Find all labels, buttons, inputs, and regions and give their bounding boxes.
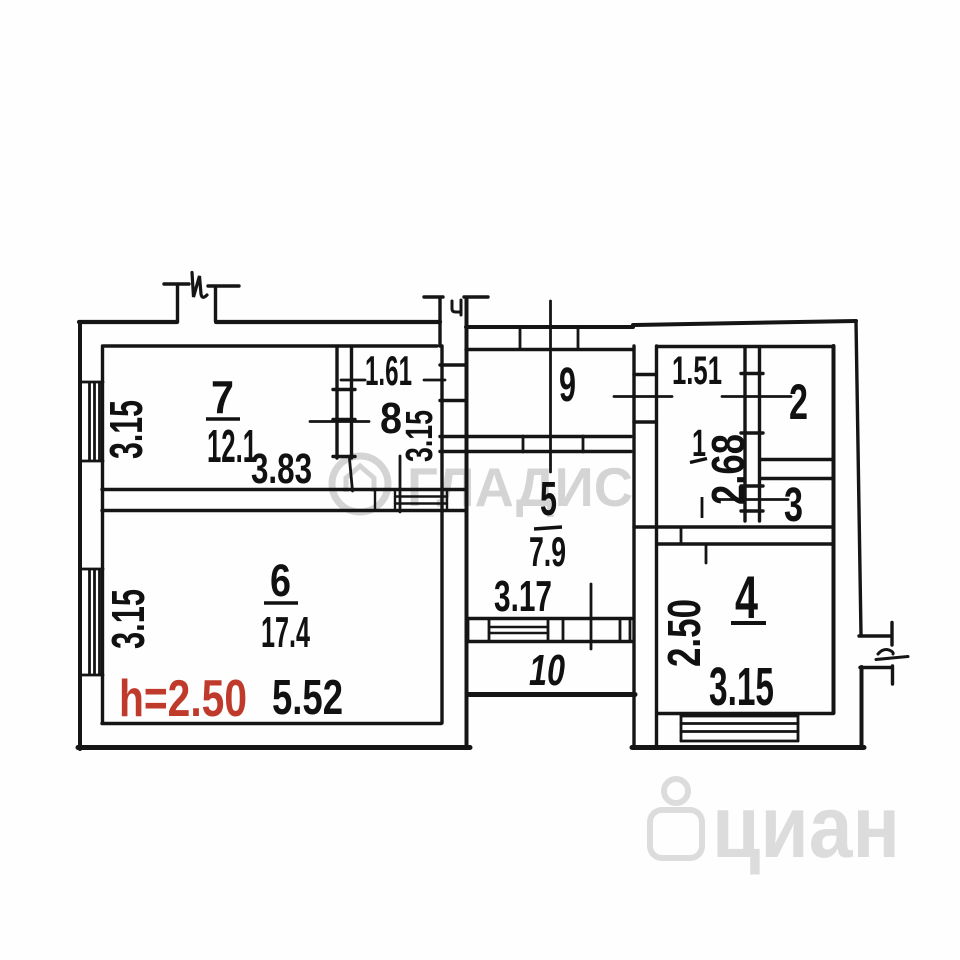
partition rooms 7/8 xyxy=(337,347,352,458)
wall bottom of rooms 1-3 section upper line xyxy=(634,525,833,528)
wall 5/10 band dividers xyxy=(468,619,630,641)
watermark logo circle (GLADIS) xyxy=(332,456,388,512)
vent symbol 2 T-bar left xyxy=(424,295,443,298)
dimension line room 3 xyxy=(719,498,788,501)
wall divider rooms 7-8 / 6 xyxy=(102,490,466,511)
wall corridor top inner xyxy=(466,348,633,351)
svg-text:1.51: 1.51 xyxy=(672,349,722,393)
wall outer bottom right block xyxy=(632,745,864,750)
wall bottom of rooms 1-3 section lower line xyxy=(657,542,833,545)
dimension tick room 1 xyxy=(701,497,704,518)
dimension tick corridor 10 xyxy=(590,584,593,649)
partition 7/8 bars xyxy=(333,390,355,457)
wall column right line xyxy=(655,346,658,746)
wall right of left block outer xyxy=(465,299,469,747)
vent symbol T-bar right xyxy=(208,284,239,287)
wall inner left xyxy=(101,346,104,723)
dimension line 1.51/2 right xyxy=(722,395,791,398)
svg-text:h=2.50: h=2.50 xyxy=(119,670,247,728)
svg-text:7.9: 7.9 xyxy=(529,528,566,575)
window W2 room 6 left wall xyxy=(80,569,103,675)
column internal bars xyxy=(634,375,656,423)
wall inner top (left block) xyxy=(104,344,437,347)
dimension line 1.51 left xyxy=(614,395,672,398)
svg-text:1.61: 1.61 xyxy=(365,347,412,394)
watermark cian pin xyxy=(650,779,702,858)
dimension tick room 4 top xyxy=(705,546,708,563)
dimension axis vertical room 9 xyxy=(549,301,552,472)
svg-text:3.17: 3.17 xyxy=(494,572,552,621)
window W1 room 7 left wall xyxy=(80,382,103,461)
dimension line room 7 width xyxy=(310,420,369,423)
wall inner bottom room 6 xyxy=(102,722,441,725)
underline room 1 xyxy=(690,459,707,463)
vent 3 letter mark xyxy=(876,650,908,660)
svg-text:5: 5 xyxy=(540,473,557,526)
vent symbol 2 letter Ch xyxy=(452,300,461,315)
wall inner bottom room 4 xyxy=(657,712,833,715)
wall rooms 5/10 band xyxy=(468,619,632,642)
svg-text:2.68: 2.68 xyxy=(702,434,754,505)
partition rooms 1/2 left line xyxy=(743,347,746,521)
partition rooms 1/2 right line xyxy=(758,347,761,521)
underline room 5 xyxy=(534,527,562,529)
underline room 7 xyxy=(206,417,240,420)
svg-text:6: 6 xyxy=(270,555,291,606)
wall outer top-left segment xyxy=(79,320,177,324)
wall outer top right block xyxy=(633,321,856,325)
dimension tick 3.15 room 8 xyxy=(399,456,402,512)
svg-text:циан: циан xyxy=(712,777,900,876)
svg-text:3.15: 3.15 xyxy=(102,589,154,649)
svg-text:3.15: 3.15 xyxy=(100,400,152,459)
vent shaft top-left chimney xyxy=(178,285,216,322)
svg-text:2.50: 2.50 xyxy=(658,599,710,667)
wall inner top right block xyxy=(657,345,832,348)
svg-text:2: 2 xyxy=(789,374,808,430)
divider 9/5 ticks xyxy=(523,436,583,452)
wall column left line xyxy=(632,346,635,746)
svg-text:10: 10 xyxy=(529,646,565,695)
vent shaft internal bars xyxy=(440,365,466,401)
svg-text:3.15: 3.15 xyxy=(399,410,441,462)
wall inner right xyxy=(832,346,836,713)
wall corridor 10 bottom xyxy=(469,692,635,697)
vent shaft top-middle verticals above wall xyxy=(440,299,467,346)
wall outer right lower xyxy=(860,667,864,747)
vent symbol 2 T-bar right xyxy=(464,295,488,298)
partition 1/2 bars xyxy=(741,374,763,512)
underline room 4 xyxy=(731,621,766,625)
window room 4 bottom xyxy=(681,716,798,741)
vent 3 right side upper line xyxy=(859,634,891,637)
vent 3 T-bar lower xyxy=(891,666,894,684)
svg-text:5.52: 5.52 xyxy=(272,671,343,725)
svg-text:12.1: 12.1 xyxy=(207,420,257,472)
wall outer left xyxy=(78,322,82,749)
corridor top wall dividers xyxy=(520,327,578,349)
svg-text:17.4: 17.4 xyxy=(261,608,310,657)
vent 3 lower line xyxy=(860,666,892,669)
svg-text:3.15: 3.15 xyxy=(709,657,774,717)
wall right of left block inner xyxy=(440,346,443,723)
bottom section wall tick xyxy=(680,527,683,544)
svg-text:4: 4 xyxy=(735,564,758,631)
svg-text:9: 9 xyxy=(559,359,576,412)
wall divider rooms 9/5 xyxy=(440,437,631,452)
wall outer top segment right of vent xyxy=(216,320,440,324)
wall corridor top outer xyxy=(466,325,633,329)
wall outer bottom (left block) xyxy=(78,745,470,750)
transom hatch in divider xyxy=(375,490,447,510)
door leaf room 8 xyxy=(350,459,353,491)
vent symbol letter I zigzag xyxy=(192,273,207,298)
wall divider rooms 2/3 xyxy=(760,460,833,479)
svg-text:7: 7 xyxy=(211,371,234,423)
svg-text:3.83: 3.83 xyxy=(251,445,312,493)
vent symbol T-bar left xyxy=(164,282,189,285)
wall outer right upper xyxy=(856,321,861,634)
svg-text:3: 3 xyxy=(784,479,803,532)
dimension line 1.61 xyxy=(341,379,445,382)
transom hatch lines in 5/10 wall xyxy=(489,627,548,633)
vent 3 T-bar upper xyxy=(890,623,893,646)
underline room 6 xyxy=(264,601,298,604)
